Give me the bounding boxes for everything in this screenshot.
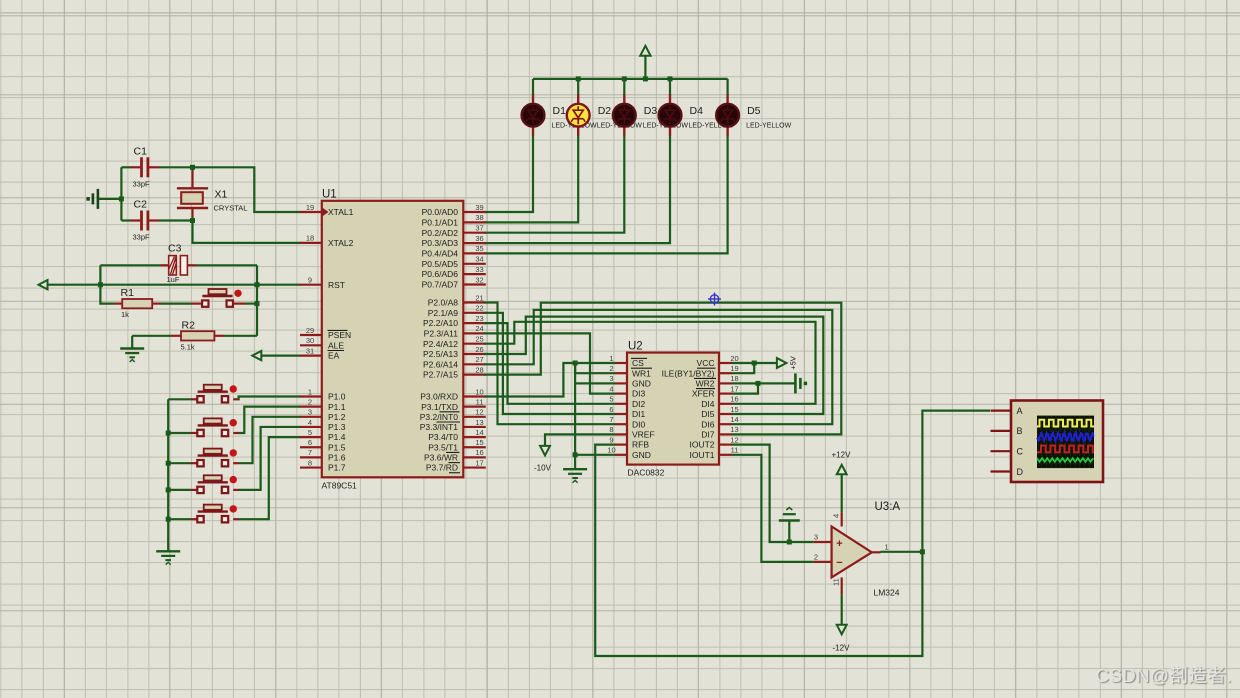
svg-text:U1: U1 — [322, 189, 337, 201]
svg-text:XFER: XFER — [692, 389, 715, 399]
svg-text:2: 2 — [609, 364, 613, 373]
wire P2.5 to DI5 — [484, 317, 823, 414]
wire IOUT1 to opamp inv — [732, 455, 814, 562]
svg-text:15: 15 — [730, 405, 738, 414]
ground right of WR2 — [795, 373, 807, 393]
svg-text:27: 27 — [475, 355, 483, 364]
svg-text:X1: X1 — [215, 189, 228, 201]
U1 pin P1.3 — [300, 418, 346, 432]
junction button bus 4 — [166, 487, 171, 492]
svg-text:P2.0/A8: P2.0/A8 — [428, 298, 459, 308]
junction crystal bottom — [190, 218, 195, 223]
U2 pin WR2 18 — [696, 374, 739, 388]
wire button 5 left lead — [168, 518, 201, 520]
wire VREF to -10V — [545, 434, 615, 445]
wire output to node — [881, 551, 923, 553]
U2 pin ILE(BY1/BY2) 19 — [662, 364, 739, 378]
svg-text:36: 36 — [475, 234, 483, 243]
svg-text:3: 3 — [609, 374, 613, 383]
U2 pin DI0 7 — [609, 415, 645, 429]
svg-text:19: 19 — [306, 203, 314, 212]
svg-text:P2.4/A12: P2.4/A12 — [423, 339, 458, 349]
svg-text:P3.5/T1: P3.5/T1 — [428, 442, 458, 452]
svg-text:C1: C1 — [134, 146, 148, 158]
wire button 4 left lead — [168, 489, 201, 491]
svg-text:-12V: -12V — [833, 644, 851, 653]
watermark — [1096, 662, 1232, 688]
svg-text:P2.7/A15: P2.7/A15 — [423, 370, 458, 380]
svg-text:23: 23 — [475, 314, 483, 323]
svg-text:R1: R1 — [121, 287, 135, 299]
capacitor C2 — [121, 199, 192, 242]
svg-text:P3.6/WR: P3.6/WR — [424, 453, 458, 463]
wire to U2 ground — [574, 455, 576, 469]
oscilloscope body — [1011, 401, 1103, 483]
junction RST right — [255, 282, 260, 287]
svg-text:DI1: DI1 — [632, 409, 646, 419]
wire C1 C2 left bus — [120, 167, 122, 220]
svg-text:P3.4/T0: P3.4/T0 — [428, 432, 458, 442]
svg-text:P0.0/AD0: P0.0/AD0 — [422, 207, 459, 217]
U1 pin P3.0/RXD — [420, 387, 486, 401]
svg-text:P3.0/RXD: P3.0/RXD — [420, 392, 458, 402]
svg-text:P3.3/INT1: P3.3/INT1 — [420, 422, 459, 432]
op-amp U3:A body — [832, 501, 901, 598]
wire P2.1 to DI1 — [484, 313, 615, 414]
svg-text:-10V: -10V — [534, 464, 552, 473]
U1 pin P1.7 — [300, 458, 346, 472]
svg-text:C3: C3 — [168, 243, 182, 255]
svg-text:ALE: ALE — [328, 340, 344, 350]
U1 pin P0.6/AD6 — [422, 265, 486, 279]
U1 pin ALE — [300, 336, 344, 350]
svg-text:2: 2 — [308, 397, 312, 406]
wire ILE to VCC — [732, 363, 754, 373]
svg-text:12: 12 — [475, 408, 483, 417]
svg-text:13: 13 — [730, 425, 738, 434]
svg-text:32: 32 — [475, 275, 483, 284]
wire button 1 left lead — [168, 398, 201, 400]
svg-text:VREF: VREF — [632, 430, 655, 440]
oscilloscope pin D — [991, 467, 1024, 477]
svg-text:6: 6 — [308, 438, 312, 447]
svg-text:12: 12 — [730, 435, 738, 444]
wire RST main — [48, 284, 301, 286]
svg-text:ILE(BY1/BY2): ILE(BY1/BY2) — [662, 368, 715, 378]
svg-text:8: 8 — [308, 458, 312, 467]
svg-text:26: 26 — [475, 345, 483, 354]
svg-text:14: 14 — [475, 428, 483, 437]
svg-text:P0.2/AD2: P0.2/AD2 — [422, 228, 459, 238]
svg-text:LED-YELLOW: LED-YELLOW — [746, 123, 792, 130]
U1 pin P0.7/AD7 — [422, 275, 486, 289]
svg-text:P1.2: P1.2 — [328, 412, 346, 422]
svg-text:15: 15 — [475, 438, 483, 447]
svg-text:P0.3/AD3: P0.3/AD3 — [422, 238, 459, 248]
svg-text:AT89C51: AT89C51 — [322, 481, 358, 491]
wire P3.0 to CS — [484, 363, 615, 397]
svg-text:P2.5/A13: P2.5/A13 — [423, 349, 458, 359]
svg-text:1: 1 — [885, 543, 889, 552]
resistor R1 — [115, 287, 202, 319]
junction VCC node — [752, 361, 757, 366]
U1 pin P1.6 — [300, 448, 346, 462]
U1 pin P0.4/AD4 — [422, 244, 486, 258]
svg-text:4: 4 — [308, 418, 312, 427]
U1 pin XTAL1 — [300, 203, 354, 217]
wire RFB feedback — [595, 445, 922, 656]
svg-text:IOUT1: IOUT1 — [689, 450, 714, 460]
ground below buttons — [156, 551, 180, 565]
origin marker — [708, 293, 721, 306]
svg-text:11: 11 — [832, 578, 841, 586]
oscilloscope pin B — [991, 426, 1023, 436]
U1 pin P2.0/A8 — [428, 293, 486, 307]
svg-text:7: 7 — [609, 415, 613, 424]
button SW5 — [197, 505, 237, 523]
svg-text:CS: CS — [632, 358, 644, 368]
svg-text:+5V: +5V — [789, 356, 798, 370]
junction RST left — [98, 282, 103, 287]
svg-text:P1.7: P1.7 — [328, 463, 346, 473]
junction CS node — [573, 361, 578, 366]
svg-text:34: 34 — [475, 255, 483, 264]
svg-text:A: A — [1017, 406, 1023, 416]
svg-text:18: 18 — [730, 374, 738, 383]
svg-text:14: 14 — [730, 415, 738, 424]
U1 pin RST — [300, 276, 345, 290]
svg-text:P0.4/AD4: P0.4/AD4 — [422, 249, 459, 259]
U1 pin P1.4 — [300, 428, 346, 442]
wire P2.0 to DI0 — [484, 303, 615, 425]
wire R2 to ground — [131, 336, 133, 348]
svg-text:P1.4: P1.4 — [328, 432, 346, 442]
svg-text:C: C — [1017, 447, 1024, 457]
U1 pin P3.5/T1 — [428, 438, 486, 452]
svg-text:DI5: DI5 — [701, 409, 715, 419]
power arrow -10V — [534, 446, 552, 473]
wire P2.2 to DI2 — [484, 323, 615, 404]
svg-text:4: 4 — [832, 514, 841, 518]
wire XTAL1 — [193, 167, 301, 212]
wire button 1 to P1.0 — [233, 397, 300, 400]
op-amp pin 11 V- — [832, 577, 842, 594]
U1 pin P1.1 — [300, 397, 346, 411]
svg-text:17: 17 — [475, 458, 483, 467]
ground below R2 — [120, 349, 144, 363]
svg-text:5.1k: 5.1k — [181, 343, 195, 352]
svg-text:P3.1/TXD: P3.1/TXD — [421, 402, 458, 412]
wire GND pin3 — [575, 382, 615, 384]
svg-text:D: D — [1017, 467, 1024, 477]
U2 pin DI5 15 — [701, 405, 738, 419]
wire CS ground bus — [574, 363, 576, 455]
svg-text:DI0: DI0 — [632, 419, 646, 429]
svg-text:28: 28 — [475, 365, 483, 374]
junction crystal top — [190, 165, 195, 170]
svg-text:R2: R2 — [182, 320, 196, 332]
svg-text:35: 35 — [475, 244, 483, 253]
U2 pin GND 3 — [609, 374, 650, 388]
svg-text:16: 16 — [475, 448, 483, 457]
wire node bus down — [256, 285, 258, 336]
svg-text:P1.6: P1.6 — [328, 453, 346, 463]
ground near C1 C2 — [86, 189, 121, 209]
button SW4 — [197, 475, 237, 493]
button SW2 — [197, 418, 237, 436]
svg-text:11: 11 — [731, 446, 739, 455]
svg-text:D5: D5 — [747, 105, 761, 117]
input arrow left — [39, 280, 48, 289]
U2 pin DI3 4 — [609, 384, 645, 398]
svg-text:1: 1 — [609, 354, 613, 363]
U2 pin DI7 13 — [701, 425, 738, 439]
U2 pin DI2 5 — [609, 395, 645, 409]
junction reset node — [255, 301, 260, 306]
wire C3 branch left — [99, 265, 101, 284]
U1 pin P1.5 — [300, 438, 346, 452]
svg-text:RFB: RFB — [632, 440, 649, 450]
svg-text:P1.5: P1.5 — [328, 442, 346, 452]
svg-text:1: 1 — [308, 387, 312, 396]
svg-text:1uF: 1uF — [167, 275, 180, 284]
junction on LED bus at arrow — [643, 76, 648, 81]
svg-text:17: 17 — [730, 384, 738, 393]
U2 pin VREF 8 — [609, 425, 654, 439]
svg-text:6: 6 — [609, 405, 613, 414]
wire P2.4 to DI4 — [484, 322, 816, 404]
svg-text:U3:A: U3:A — [875, 501, 901, 513]
resistor R2 — [132, 320, 257, 352]
wire D3 anode — [623, 79, 625, 95]
button SW1 — [197, 385, 237, 403]
junction left bus — [119, 196, 124, 201]
U1 pin P0.1/AD1 — [422, 213, 486, 227]
svg-text:P2.6/A14: P2.6/A14 — [423, 359, 458, 369]
svg-text:C2: C2 — [134, 199, 148, 211]
junction on LED bus at D3 — [622, 76, 627, 81]
svg-text:P2.2/A10: P2.2/A10 — [423, 318, 458, 328]
svg-text:U2: U2 — [628, 341, 643, 353]
U1 pin P2.4/A12 — [423, 335, 486, 349]
svg-text:DAC0832: DAC0832 — [628, 468, 665, 478]
wire C3 branch right — [256, 265, 258, 284]
wire P2.3 to DI3 — [484, 333, 615, 393]
U1 pin P0.0/AD0 — [422, 203, 486, 217]
U1 pin P3.4/T0 — [428, 428, 486, 442]
U2 pin DI4 16 — [701, 395, 738, 409]
wire P2.6 to DI6 — [484, 310, 832, 424]
svg-text:GND: GND — [632, 450, 651, 460]
U1 pin P2.5/A13 — [423, 345, 486, 359]
svg-text:RST: RST — [328, 280, 345, 290]
LED D1 — [522, 94, 597, 136]
svg-text:P0.7/AD7: P0.7/AD7 — [422, 280, 459, 290]
IC U2 DAC0832 body — [627, 341, 719, 478]
svg-text:D3: D3 — [644, 105, 658, 117]
oscilloscope pin C — [991, 447, 1024, 457]
U1 pin P2.1/A9 — [428, 304, 486, 318]
wire button 2 left lead — [168, 432, 201, 434]
junction button bus 5 — [166, 517, 171, 522]
ground below U2 — [563, 469, 587, 483]
svg-text:16: 16 — [730, 395, 738, 404]
U1 pin P1.0 — [300, 387, 346, 401]
capacitor C3 — [100, 243, 257, 285]
svg-text:P0.5/AD5: P0.5/AD5 — [422, 259, 459, 269]
ground above opamp input — [779, 508, 800, 543]
U1 pin PSEN — [300, 326, 351, 340]
wire button 3 left lead — [168, 462, 201, 464]
op-amp pin 2 stub — [814, 553, 832, 562]
wire WR2 to ground — [732, 382, 795, 384]
U1 pin P2.3/A11 — [424, 324, 486, 338]
svg-text:P2.3/A11: P2.3/A11 — [424, 329, 459, 339]
U2 pin XFER 17 — [692, 384, 739, 398]
op-amp pin 1 output stub — [872, 543, 889, 553]
capacitor C1 — [121, 146, 192, 189]
svg-text:33pF: 33pF — [133, 180, 151, 189]
svg-text:7: 7 — [308, 448, 312, 457]
svg-text:3: 3 — [308, 408, 312, 417]
U1 pin XTAL2 — [300, 234, 354, 248]
LED D5 — [716, 94, 791, 136]
wire button bus — [167, 399, 169, 551]
junction output node — [920, 549, 925, 554]
svg-text:24: 24 — [475, 324, 483, 333]
power arrow -12V — [833, 625, 851, 653]
U1 pin P2.2/A10 — [423, 314, 486, 328]
U1 pin P3.7/RD — [426, 458, 486, 472]
U2 pin DI1 6 — [609, 405, 645, 419]
junction button bus 3 — [166, 461, 171, 466]
U1 pin P3.3/INT1 — [420, 418, 486, 432]
junction GND node — [573, 452, 578, 457]
IC U1 AT89C51 body — [322, 189, 464, 491]
power arrow +12V — [832, 451, 852, 475]
U2 pin VCC 20 — [697, 354, 739, 368]
wire D2 to P0.1 — [484, 135, 578, 222]
svg-text:19: 19 — [730, 364, 738, 373]
svg-text:D4: D4 — [690, 105, 704, 117]
svg-text:31: 31 — [306, 346, 314, 355]
wire D4 to P0.3 — [484, 135, 670, 243]
svg-text:33: 33 — [475, 265, 483, 274]
svg-text:DI4: DI4 — [701, 399, 715, 409]
oscilloscope pin A — [991, 406, 1023, 416]
svg-text:EA: EA — [328, 351, 340, 361]
svg-text:5: 5 — [609, 395, 613, 404]
crystal X1 — [177, 167, 248, 220]
U1 pin P3.2/INT0 — [420, 408, 486, 422]
op-amp pin 4 V+ — [832, 512, 842, 526]
svg-text:2: 2 — [814, 553, 818, 562]
U2 pin CS 1 — [609, 354, 652, 368]
svg-text:37: 37 — [475, 224, 483, 233]
svg-text:P1.3: P1.3 — [328, 422, 346, 432]
svg-text:18: 18 — [306, 234, 314, 243]
wire D5 anode — [726, 79, 728, 95]
wire CS to WR1 — [575, 363, 615, 373]
wire button 5 to P1.4 — [233, 437, 300, 519]
svg-text:P0.1/AD1: P0.1/AD1 — [422, 218, 459, 228]
wire XTAL2 — [193, 221, 301, 243]
junction on LED bus at D4 — [668, 76, 673, 81]
svg-text:P0.6/AD6: P0.6/AD6 — [422, 269, 459, 279]
svg-text:VCC: VCC — [697, 358, 715, 368]
wire P2.7 to DI7 — [484, 303, 841, 435]
svg-text:9: 9 — [308, 276, 312, 285]
junction on LED bus at D2 — [576, 76, 581, 81]
svg-text:29: 29 — [306, 326, 314, 335]
U2 pin IOUT1 11 — [689, 446, 738, 460]
U1 pin P0.2/AD2 — [422, 224, 486, 238]
U2 pin WR1 2 — [609, 364, 651, 378]
wire button 4 to P1.3 — [233, 427, 300, 490]
wire GND pin10 — [575, 454, 615, 456]
svg-text:D1: D1 — [553, 105, 567, 117]
svg-text:8: 8 — [609, 425, 613, 434]
svg-text:33pF: 33pF — [133, 233, 151, 242]
U1 pin P2.6/A14 — [423, 355, 486, 369]
svg-text:XTAL2: XTAL2 — [328, 238, 354, 248]
EA input arrow — [252, 351, 300, 360]
svg-text:DI3: DI3 — [632, 389, 646, 399]
svg-text:P3.2/INT0: P3.2/INT0 — [420, 412, 459, 422]
reset button — [202, 289, 242, 307]
svg-text:GND: GND — [632, 379, 651, 389]
svg-text:DI7: DI7 — [701, 430, 715, 440]
svg-text:CRYSTAL: CRYSTAL — [214, 204, 248, 213]
svg-text:WR1: WR1 — [632, 368, 651, 378]
wire D4 anode — [669, 79, 671, 95]
svg-text:39: 39 — [475, 203, 483, 212]
wire D1 anode — [532, 79, 534, 95]
wire R1 branch — [100, 285, 114, 304]
wire V+ to +12V — [841, 475, 843, 512]
U1 pin P0.3/AD3 — [422, 234, 486, 248]
svg-text:B: B — [1017, 426, 1023, 436]
LED D3 — [613, 94, 688, 136]
wire output to scope A — [922, 411, 990, 552]
wire V- to -12V — [841, 595, 843, 625]
svg-text:WR2: WR2 — [696, 379, 715, 389]
svg-text:10: 10 — [607, 446, 615, 455]
wire D1 to P0.0 — [484, 135, 533, 212]
svg-text:+12V: +12V — [832, 451, 852, 460]
oscilloscope screen — [1037, 416, 1094, 469]
svg-text:4: 4 — [609, 384, 613, 393]
button SW3 — [197, 449, 237, 467]
svg-text:22: 22 — [475, 304, 483, 313]
wire D5 to P0.4 — [484, 135, 728, 253]
svg-text:LM324: LM324 — [874, 588, 900, 598]
svg-text:9: 9 — [609, 435, 613, 444]
wire reset button to node — [233, 303, 257, 305]
svg-text:11: 11 — [476, 397, 484, 406]
wire XFER to WR2 — [732, 383, 758, 393]
wire D3 to P0.2 — [484, 135, 624, 233]
svg-text:P2.1/A9: P2.1/A9 — [428, 308, 459, 318]
svg-text:DI6: DI6 — [701, 419, 715, 429]
wire D2 anode — [577, 79, 579, 95]
U2 pin DI6 14 — [701, 415, 738, 429]
svg-text:P1.1: P1.1 — [328, 402, 346, 412]
svg-text:P1.0: P1.0 — [328, 392, 346, 402]
svg-text:DI2: DI2 — [632, 399, 646, 409]
op-amp pin 3 stub — [814, 533, 832, 543]
junction button bus 2 — [166, 431, 171, 436]
